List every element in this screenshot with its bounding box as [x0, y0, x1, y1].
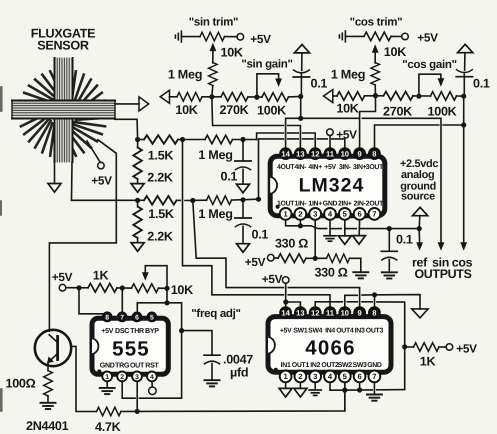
wire to ground [350, 258, 361, 272]
ground pin4 [324, 236, 336, 241]
wire: toroid left leg to analog ground [54, 162, 56, 184]
svg-text:OUTPUTS: OUTPUTS [414, 267, 471, 281]
wire 4066 pin6 (SW3) [359, 382, 361, 390]
output arrow ref [416, 242, 423, 251]
svg-text:+5V: +5V [336, 127, 357, 141]
svg-text:0.1: 0.1 [473, 77, 490, 91]
svg-text:100K: 100K [428, 105, 457, 119]
wire [391, 35, 402, 37]
svg-text:7: 7 [372, 372, 376, 381]
node: sense output arrow (open, points right) [139, 97, 149, 111]
wire LM324 pin 8 (3OUT) to cos output line [375, 125, 439, 148]
svg-text:1 Meg: 1 Meg [168, 68, 202, 82]
svg-text:10K: 10K [336, 102, 358, 116]
wire [248, 96, 262, 98]
node [298, 223, 303, 228]
wiper arrow cos trim [374, 51, 376, 63]
svg-text:1K: 1K [420, 354, 436, 368]
op-amp U1 LM324 body [270, 156, 385, 215]
node: cos input arrow (open, points left) [324, 90, 333, 103]
svg-text:OUT4: OUT4 [336, 327, 354, 334]
ground .0047 [205, 380, 220, 386]
resistor 270K (sin row) [221, 93, 248, 102]
wire to 555 pin 7 (DSC) [121, 288, 123, 312]
wire sin trim node to LM324 pin 13 (4IN-) [212, 97, 284, 126]
wire [117, 287, 132, 289]
wire +5V to 4066 pin 14 [285, 283, 287, 306]
wire LM324 pin4 to ground [329, 220, 331, 236]
svg-text:1IN+: 1IN+ [308, 200, 322, 207]
wire [374, 85, 376, 96]
wire 4.7K to OUT node and to 4066 pin 5 [121, 381, 345, 411]
svg-text:5: 5 [150, 314, 154, 321]
svg-text:3: 3 [313, 210, 317, 219]
wire [457, 95, 464, 97]
terminal +5V 4066 [282, 277, 289, 284]
node row2 takeoff [256, 197, 261, 202]
wire [159, 287, 168, 289]
ground (analog) 4066 pin1 [279, 388, 292, 397]
resistor 1 Meg (row2) [207, 196, 232, 205]
ground (analog) toroid left [48, 184, 61, 193]
ground 4066 pin7 [367, 395, 382, 401]
svg-text:+5V: +5V [101, 327, 113, 335]
wire LM324 pin6 [358, 220, 360, 236]
wire LM324 pin3 down to divider [314, 220, 316, 259]
wire 4.7K left to transistor base [71, 346, 96, 411]
resistor 270K (cos row) [384, 92, 413, 101]
wire [345, 35, 364, 37]
svg-text:270K: 270K [383, 105, 412, 119]
svg-text:1IN-: 1IN- [294, 200, 307, 207]
svg-text:LM324: LM324 [299, 175, 365, 197]
potentiometer "cos trim" 10K [364, 32, 391, 41]
wire pot node down to THR junction [166, 288, 168, 303]
svg-text:10K: 10K [171, 283, 193, 297]
potentiometer 10K "freq adj" [132, 284, 159, 293]
wire staircase row2 node to 4066 pin 9 (IN3) [193, 201, 284, 288]
resistor 1 Meg (cos) vertical [371, 63, 380, 85]
terminal +5V 1K [446, 344, 453, 351]
svg-text:SW1: SW1 [293, 327, 307, 334]
op-amp U1 LM324 pins [280, 148, 381, 220]
wire [202, 96, 221, 98]
wire staircase row1 node to 4066 pin 11 (IN4) [183, 140, 284, 295]
svg-text:SW2: SW2 [338, 362, 352, 369]
resistor 1K (4066 pullup) [414, 343, 439, 352]
wire to 555 pin 6 (THR) [137, 303, 167, 312]
svg-text:1 Meg: 1 Meg [331, 68, 365, 82]
wire 4066 pin1 [285, 382, 287, 388]
svg-text:330 Ω: 330 Ω [314, 265, 347, 279]
wire to timing cap junction [139, 303, 181, 398]
ground (analog) pin5 [338, 236, 351, 245]
node [298, 94, 303, 99]
switch U3 4066 pins [280, 307, 381, 383]
node [120, 285, 125, 290]
svg-text:IN4: IN4 [325, 327, 335, 334]
terminal +5V cos trim [402, 33, 409, 40]
svg-text:3OUT: 3OUT [366, 164, 384, 171]
terminal +5V sin trim [237, 34, 244, 41]
svg-text:2: 2 [298, 372, 302, 381]
wire [47, 396, 49, 403]
wire emitter to 100 ohm [47, 363, 49, 371]
svg-text:0.1: 0.1 [396, 232, 413, 246]
svg-text:RST: RST [145, 361, 159, 369]
svg-text:13: 13 [296, 308, 304, 317]
analog supply arrow (up) cos [458, 44, 473, 52]
node [298, 116, 303, 121]
wire +5V branch down to 555 pin 8 [79, 288, 107, 314]
svg-text:10K: 10K [175, 103, 197, 117]
svg-text:1.5K: 1.5K [148, 207, 174, 221]
svg-text:8: 8 [105, 314, 109, 321]
svg-text:2IN+: 2IN+ [338, 200, 352, 207]
terminal +5V toroid [98, 162, 105, 169]
wire 1K right [405, 346, 414, 348]
wire to 4066 pin 13 (SW1) [286, 302, 301, 307]
wire cos node to LM324 pin 9 (3IN-) [360, 96, 376, 148]
wire [225, 36, 238, 38]
svg-text:+5V: +5V [91, 174, 112, 188]
wire LM324 pin1-pin2 tie and ref line [286, 220, 327, 229]
wire [289, 96, 301, 98]
svg-text:4OUT: 4OUT [277, 164, 295, 171]
wire ref rail to analog ground arrow [375, 295, 421, 309]
svg-text:µfd: µfd [230, 366, 248, 380]
wiper arrow sin gain [275, 79, 282, 88]
node row1 mid [180, 137, 185, 142]
svg-text:4: 4 [150, 374, 154, 381]
svg-text:9: 9 [357, 308, 361, 317]
svg-text:2IN-: 2IN- [354, 200, 367, 207]
wire 4066 pin2 [299, 382, 301, 388]
timer U2 555 pins [102, 312, 157, 381]
wire (hop over descending row1 wire) [177, 199, 181, 201]
svg-text:"sin trim": "sin trim" [189, 17, 238, 29]
wire [333, 95, 337, 97]
resistor 1.5K (row1) [144, 135, 178, 144]
ground 100 ohm [41, 403, 56, 409]
wire: toroid +5V tap [87, 141, 100, 162]
analog supply arrow (up) sin [294, 45, 309, 53]
node [76, 285, 81, 290]
resistor 1.5K (row2) [144, 196, 177, 205]
svg-text:10K: 10K [384, 45, 406, 59]
node [461, 94, 466, 99]
node [417, 226, 422, 231]
wire 555 pin3 (OUT) down [136, 381, 138, 411]
resistor 10K (cos row) [337, 92, 364, 101]
analog ground arrow 4066 [412, 309, 428, 318]
wire [138, 139, 144, 141]
svg-text:2: 2 [120, 374, 124, 381]
wire row1 to LM324 pin 12 (4IN+) [257, 133, 284, 140]
svg-text:DSC: DSC [115, 327, 129, 335]
svg-text:6: 6 [135, 314, 139, 321]
timer U2 555 body [92, 318, 168, 374]
wire: sense lower tap down to row1 node [115, 119, 138, 139]
svg-text:1.5K: 1.5K [148, 149, 174, 163]
capacitor 0.1 (row2) [242, 200, 244, 218]
svg-text:4IN-: 4IN- [294, 164, 307, 171]
svg-text:"sin gain": "sin gain" [241, 59, 292, 71]
wire sin gain loop [257, 74, 279, 97]
svg-text:BYP: BYP [145, 327, 159, 335]
transistor Q1 2N4401 [35, 330, 71, 366]
node [283, 299, 288, 304]
resistor 2.2K (row2) vertical [133, 207, 142, 239]
svg-text:IN2: IN2 [310, 362, 320, 369]
svg-text:source: source [401, 190, 435, 202]
resistor 10K (sin row) [177, 93, 202, 102]
svg-text:2N4401: 2N4401 [26, 419, 69, 433]
svg-text:14: 14 [281, 308, 290, 317]
svg-text:100Ω: 100Ω [6, 377, 36, 391]
wire row2 to LM324 pin 10 (3IN+) [259, 139, 284, 199]
svg-text:100K: 100K [257, 104, 286, 118]
wire node down to pin14 bus [300, 97, 302, 119]
svg-text:1: 1 [105, 374, 109, 381]
svg-text:+5V: +5V [324, 164, 336, 171]
svg-text:4066: 4066 [305, 337, 355, 360]
wire 555 pin1 to ground [106, 381, 108, 387]
potentiometer "sin trim" 10K [200, 32, 224, 41]
resistor 330 ohm lower [327, 254, 350, 263]
svg-text:330 Ω: 330 Ω [275, 237, 308, 251]
ground 555 pin1 [100, 388, 115, 394]
ground (analog) row2 2.2K [131, 243, 144, 252]
terminal +5V 330 divider [268, 254, 275, 261]
svg-text:13: 13 [296, 149, 304, 158]
switch U3 4066 body [268, 317, 391, 373]
capacitor .0047 ufd [204, 354, 220, 356]
svg-text:2: 2 [298, 210, 302, 219]
capacitor 0.1 (ref out) [388, 229, 390, 251]
ground (chassis, rotated) cos trim [339, 31, 345, 42]
analog supply arrow (up) ref node [413, 207, 428, 215]
svg-text:7: 7 [120, 314, 124, 321]
svg-text:2.2K: 2.2K [147, 230, 173, 244]
svg-text:IN1: IN1 [281, 362, 291, 369]
wire [413, 95, 431, 97]
wire cos gain loop [419, 74, 441, 96]
node [313, 256, 318, 261]
svg-text:+2.5vdc: +2.5vdc [400, 158, 438, 170]
wire 4066 pin 10 (OUT4) to ref rail [345, 295, 357, 306]
svg-text:"cos trim": "cos trim" [350, 17, 403, 29]
wire: toroid drive tap diagonal down to transistor collector [49, 140, 116, 331]
svg-text:9: 9 [357, 149, 361, 158]
wire [212, 86, 213, 97]
capacitor 0.1 (row1) [242, 140, 244, 161]
wire 4066 pin4 (OUT2) to control rail [330, 382, 372, 390]
svg-text:THR: THR [130, 327, 144, 335]
node row2 right [240, 197, 245, 202]
ground 4066 pin3 [309, 390, 321, 395]
capacitor 0.1 (cos top) [463, 74, 465, 96]
svg-text:1K: 1K [93, 268, 109, 282]
wire 4066 pin 12 (SW4) control line [315, 302, 342, 307]
node row2 left [135, 198, 140, 203]
node [254, 95, 259, 100]
svg-text:+5V: +5V [280, 327, 292, 334]
svg-text:11: 11 [326, 149, 335, 158]
ground 0.1 ref [382, 272, 397, 278]
svg-text:12: 12 [311, 149, 319, 158]
terminal 555 pin4 (RST) [151, 381, 153, 387]
wiper arrow freq adj [142, 272, 149, 281]
svg-text:12: 12 [311, 308, 319, 317]
output arrow cos [460, 242, 467, 251]
svg-text:0.1: 0.1 [311, 77, 328, 91]
svg-text:"cos gain": "cos gain" [402, 59, 457, 71]
wire: toroid right leg down to row2 [71, 162, 74, 200]
svg-text:OUT2: OUT2 [321, 362, 339, 369]
ground (chassis, rotated) sin trim [175, 31, 181, 42]
svg-text:+5V: +5V [417, 31, 438, 45]
svg-text:+5V: +5V [245, 255, 266, 269]
svg-text:6: 6 [357, 210, 361, 219]
resistor 2.2K (row1) vertical [133, 148, 142, 180]
wire freq adj wiper loop [145, 266, 167, 289]
output arrow sin [438, 242, 445, 251]
svg-text:2.2K: 2.2K [147, 171, 173, 185]
svg-text:8: 8 [372, 308, 376, 317]
wire ref output [418, 229, 420, 243]
svg-text:7: 7 [372, 210, 376, 219]
ground (analog) pin6 [353, 236, 366, 245]
wire 4066 pin 8 (OUT3) to ref rail [374, 295, 376, 307]
wire LM324 pin5 [344, 220, 346, 236]
svg-text:10: 10 [341, 149, 349, 158]
wire 4066 pin7 [373, 382, 375, 394]
svg-text:14: 14 [281, 149, 290, 158]
node [372, 292, 377, 297]
fluxgate horizontal sense bar [12, 101, 115, 119]
node [357, 387, 362, 392]
scan marks [0, 86, 3, 412]
wire [181, 36, 200, 38]
wire row2 from sensor [72, 199, 145, 201]
wire 4066 pin5 (SW2) down to 555 OUT rail [344, 382, 346, 411]
svg-text:6: 6 [357, 372, 361, 381]
svg-text:SW4: SW4 [308, 327, 322, 334]
svg-text:TRG: TRG [115, 361, 130, 369]
svg-text:1 Meg: 1 Meg [198, 207, 232, 221]
ground (analog) row2 0.1 [237, 244, 250, 253]
svg-text:+5V: +5V [456, 341, 477, 355]
wire [232, 198, 259, 201]
fluxgate sensor toroid core [19, 70, 107, 158]
svg-text:OUT3: OUT3 [366, 327, 384, 334]
svg-text:3: 3 [313, 372, 317, 381]
svg-text:10K: 10K [221, 46, 243, 60]
node [342, 388, 347, 393]
svg-text:SW3: SW3 [353, 362, 367, 369]
node: sin input arrow (open, points left) [160, 90, 169, 103]
wire [170, 96, 178, 98]
node [179, 328, 184, 333]
wire [233, 139, 257, 141]
ground 330 [353, 272, 368, 278]
node [402, 344, 407, 349]
node [164, 300, 169, 305]
node [416, 94, 421, 99]
wiper arrow sin trim [212, 50, 214, 64]
resistor 100 ohm vertical [44, 371, 53, 396]
svg-text:OUT: OUT [130, 361, 145, 369]
wire: sense output to right arrow [115, 103, 139, 105]
ground (analog) row1 2.2K [131, 184, 144, 193]
svg-text:+5V: +5V [262, 272, 283, 286]
resistor 1K (555) [88, 284, 117, 293]
svg-text:4.7K: 4.7K [95, 420, 121, 434]
wire to .0047 cap [182, 331, 212, 355]
wire sin output bus: node/dot to pin14 and output [286, 118, 359, 147]
svg-text:10: 10 [341, 308, 349, 317]
svg-text:SENSOR: SENSOR [37, 39, 89, 53]
ground (analog) 4066 pin2 [294, 388, 307, 397]
node [209, 94, 214, 99]
svg-text:8: 8 [372, 149, 376, 158]
svg-text:0.1: 0.1 [252, 228, 269, 242]
resistor 1 Meg (sin) vertical [209, 63, 218, 86]
svg-text:1OUT: 1OUT [277, 200, 295, 207]
svg-text:270K: 270K [220, 103, 249, 117]
svg-text:.0047: .0047 [223, 353, 253, 367]
wire 4066 pin3 [314, 382, 316, 390]
capacitor 0.1 (sin top) [300, 74, 302, 96]
potentiometer 100K "cos gain" [431, 92, 457, 101]
svg-text:1 Meg: 1 Meg [198, 148, 232, 162]
svg-text:3IN+: 3IN+ [353, 164, 367, 171]
svg-text:+5V: +5V [250, 32, 271, 46]
node [373, 93, 378, 98]
wiper arrow cos gain [438, 78, 445, 87]
node row1 left [135, 137, 140, 142]
resistor 1 Meg (row1) [205, 135, 233, 144]
potentiometer 100K "sin gain" [262, 93, 288, 102]
node row2 mid [190, 198, 195, 203]
svg-text:GND: GND [323, 200, 338, 207]
wire cos output [463, 96, 465, 243]
svg-text:+5V: +5V [52, 270, 73, 284]
svg-text:OUT1: OUT1 [292, 362, 310, 369]
fluxgate vertical winding bar [55, 58, 73, 162]
terminal +5V 555 [59, 284, 66, 291]
node [461, 122, 466, 127]
svg-text:GND: GND [367, 362, 382, 369]
svg-text:3IN-: 3IN- [339, 164, 352, 171]
wire [365, 95, 384, 97]
resistor 330 ohm upper [278, 254, 306, 263]
node [387, 226, 392, 231]
node [135, 409, 140, 414]
svg-text:555: 555 [112, 338, 150, 361]
terminal +5V LM324 pin 11 [327, 129, 334, 136]
svg-text:GND: GND [100, 361, 115, 369]
resistor 4.7K [97, 407, 121, 416]
wire [439, 346, 446, 348]
svg-text:2OUT: 2OUT [366, 200, 384, 207]
svg-text:0.1: 0.1 [221, 170, 238, 184]
wire [306, 257, 327, 259]
svg-text:analog: analog [401, 169, 434, 181]
svg-text:3: 3 [135, 374, 139, 381]
svg-text:IN3: IN3 [355, 327, 365, 334]
